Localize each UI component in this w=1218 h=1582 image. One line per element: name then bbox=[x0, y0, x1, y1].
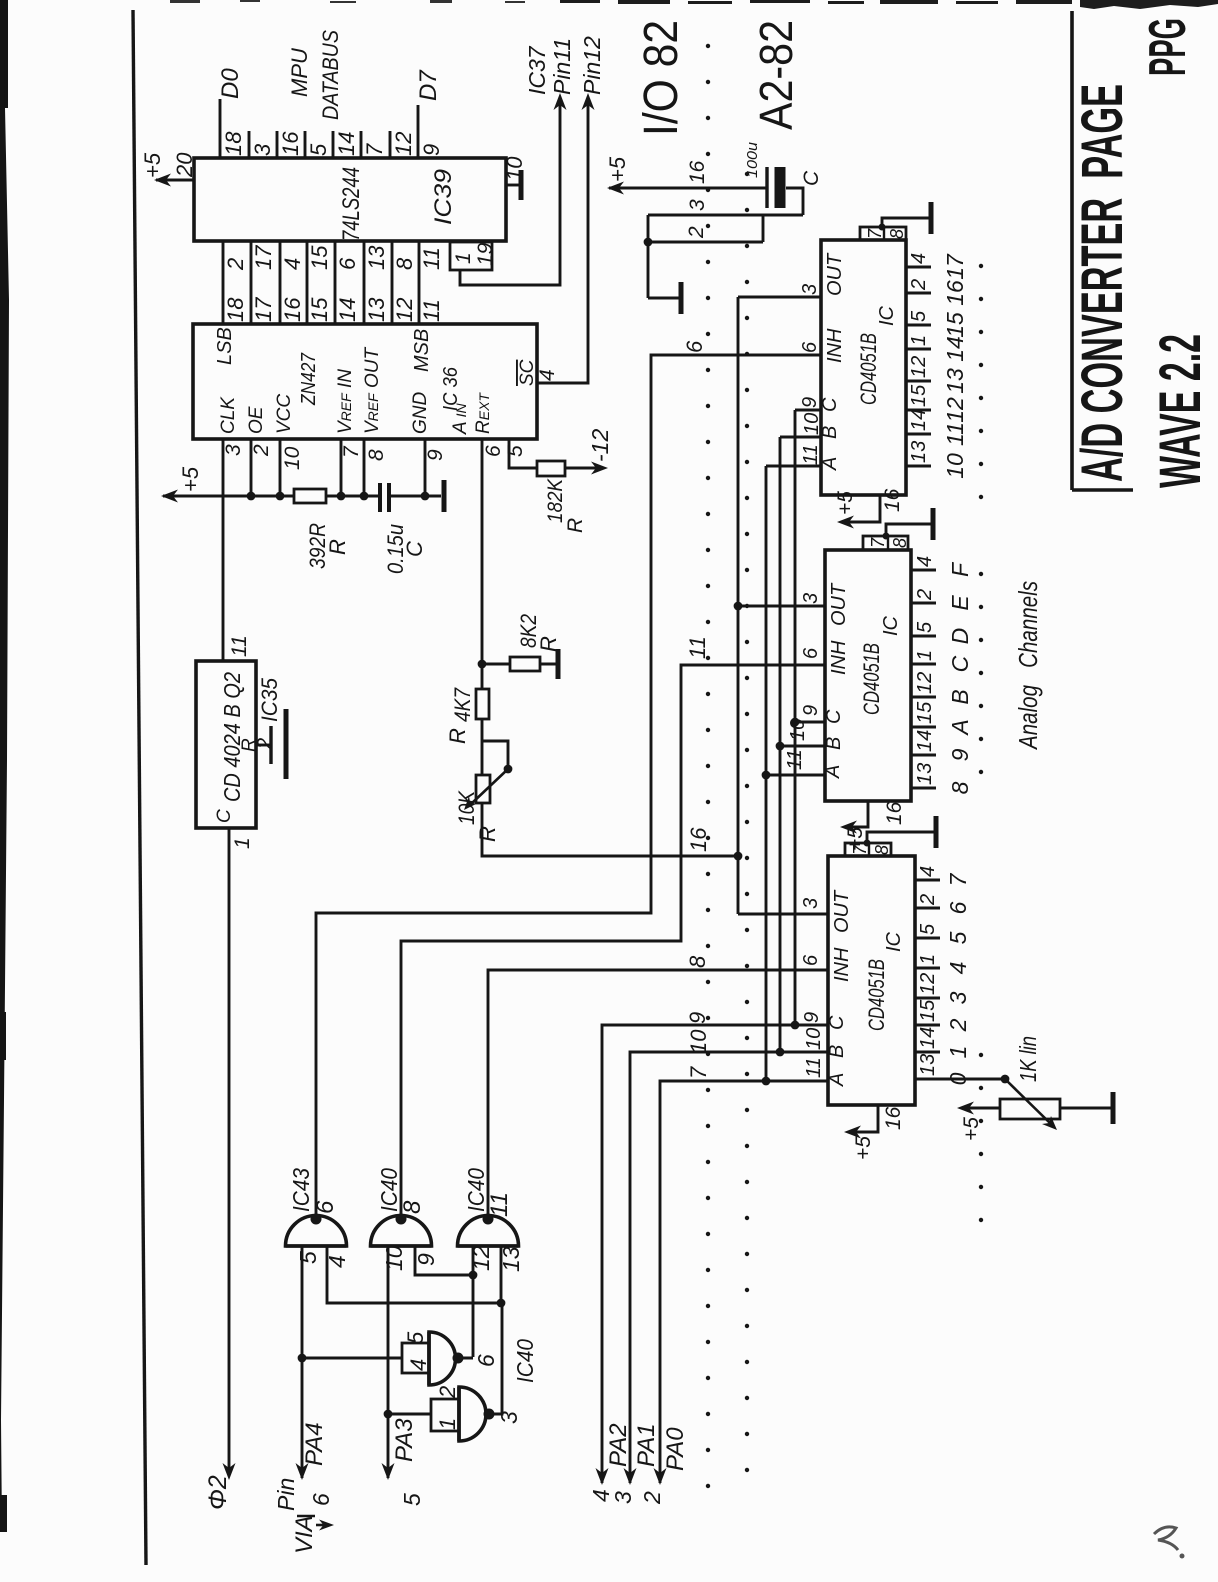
svg-text:R: R bbox=[564, 518, 587, 533]
svg-text:3: 3 bbox=[610, 1491, 636, 1504]
svg-text:A2-82: A2-82 bbox=[750, 20, 802, 130]
svg-text:B: B bbox=[823, 737, 845, 750]
svg-text:11: 11 bbox=[486, 1192, 513, 1217]
svg-text:8: 8 bbox=[399, 1200, 426, 1214]
wire IC40c inputs 4,5 from PA4 bbox=[302, 1357, 402, 1360]
svg-text:C: C bbox=[947, 655, 973, 672]
svg-text:+5: +5 bbox=[605, 156, 630, 182]
IC U-IC39 74LS244 buffer bbox=[194, 158, 506, 241]
svg-text:1: 1 bbox=[945, 1046, 971, 1059]
power +5 to 1K lin pot bbox=[961, 1107, 1000, 1110]
svg-text:5: 5 bbox=[504, 445, 527, 457]
wire IC39 data pin 14 to MPU databus bbox=[332, 131, 335, 158]
gate IC40b NAND (output pin 11) bbox=[458, 1216, 519, 1247]
wire ground net segment 3 bbox=[648, 214, 803, 217]
svg-text:9: 9 bbox=[799, 397, 821, 408]
svg-text:MPU: MPU bbox=[287, 48, 312, 97]
svg-text:PA0: PA0 bbox=[662, 1427, 689, 1471]
pin 15 channel A CD4051B no.2 bbox=[911, 726, 936, 729]
wire C input CD4051B no.2 pin 9 bbox=[795, 721, 825, 724]
svg-text:Pin: Pin bbox=[273, 1478, 299, 1511]
pin 15 channel 12 CD4051B no.1 bbox=[906, 409, 931, 412]
svg-text:A: A bbox=[819, 457, 841, 471]
svg-text:Analog Channels: Analog Channels bbox=[1013, 581, 1043, 751]
svg-text:2: 2 bbox=[908, 279, 930, 291]
svg-text:CD4051B: CD4051B bbox=[856, 333, 881, 405]
scan noise left edge bbox=[0, 0, 8, 108]
svg-text:5: 5 bbox=[914, 621, 936, 633]
svg-text:5: 5 bbox=[908, 310, 930, 322]
svg-text:16: 16 bbox=[883, 801, 906, 825]
wire ground net segment 2 bbox=[648, 241, 763, 244]
pin 14 channel 11 CD4051B no.1 bbox=[906, 433, 931, 436]
wire PA0 from VIA pin 2 to CD4051 A inputs bbox=[660, 1081, 828, 1483]
svg-text:1: 1 bbox=[917, 954, 939, 965]
svg-text:13: 13 bbox=[364, 245, 389, 270]
pins 7/8 box CD4051B no.1 bbox=[860, 227, 906, 240]
IC U-CD4051B no.2 analog multiplexer bbox=[825, 550, 911, 801]
svg-text:D: D bbox=[947, 628, 973, 645]
wire IC39 data pin 18 to MPU databus bbox=[219, 99, 222, 158]
svg-text:6: 6 bbox=[482, 445, 505, 457]
svg-text:CD 4024 B Q2: CD 4024 B Q2 bbox=[219, 672, 245, 802]
svg-text:IC39: IC39 bbox=[430, 169, 457, 225]
svg-text:18: 18 bbox=[223, 297, 248, 322]
wire IC36 pin 15 to IC39 pin 15 bbox=[306, 241, 309, 324]
svg-text:2: 2 bbox=[254, 738, 276, 750]
svg-text:5: 5 bbox=[295, 1251, 321, 1264]
pin 14 channel 9 CD4051B no.2 bbox=[911, 754, 936, 757]
svg-text:15: 15 bbox=[307, 245, 332, 270]
svg-text:3: 3 bbox=[686, 199, 709, 211]
svg-text:13: 13 bbox=[364, 297, 389, 322]
svg-text:15: 15 bbox=[307, 297, 332, 322]
svg-text:2: 2 bbox=[945, 1018, 971, 1032]
svg-text:VCC: VCC bbox=[274, 394, 295, 434]
IC U-IC35 CD4024B divider bbox=[196, 661, 256, 828]
svg-text:+5: +5 bbox=[852, 1136, 875, 1160]
svg-text:VREF IN: VREF IN bbox=[335, 369, 356, 434]
pin 4 channel F CD4051B no.2 bbox=[911, 569, 936, 572]
wire IC36 REXT pin 5 bbox=[509, 439, 537, 468]
ground pins 7/8 CD4051B no.2 bbox=[886, 524, 931, 536]
svg-text:15: 15 bbox=[914, 701, 936, 724]
wire B input CD4051B no.1 pin 10 bbox=[780, 436, 821, 439]
svg-text:14: 14 bbox=[908, 409, 930, 431]
svg-text:10: 10 bbox=[686, 1029, 711, 1054]
svg-text:2: 2 bbox=[917, 894, 939, 906]
pin 13 channel 0 CD4051B no.3 bbox=[915, 1078, 940, 1081]
svg-text:INH: INH bbox=[824, 328, 846, 363]
pin 1 channel 4 CD4051B no.3 bbox=[915, 967, 940, 970]
wire AIN node to IC36 pin 6 bbox=[481, 439, 484, 664]
svg-text:1: 1 bbox=[435, 1418, 460, 1430]
svg-text:11: 11 bbox=[800, 444, 822, 465]
wire IC40d output 3 to pins 4/13 net bbox=[486, 1303, 502, 1414]
svg-text:Φ2: Φ2 bbox=[204, 1475, 232, 1510]
svg-text:R: R bbox=[536, 636, 561, 652]
svg-text:5: 5 bbox=[917, 923, 939, 935]
ground pin 10 of IC39 bbox=[506, 184, 520, 187]
potentiometer R-1K-lin bbox=[1000, 1099, 1060, 1119]
svg-text:R: R bbox=[475, 826, 500, 842]
pin 4 channel 17 CD4051B no.1 bbox=[906, 266, 931, 269]
svg-text:2: 2 bbox=[435, 1386, 460, 1399]
wire IC39 data pin 9 to MPU databus bbox=[417, 105, 420, 158]
svg-text:PA1: PA1 bbox=[633, 1423, 660, 1467]
IC U-CD4051B no.1 analog multiplexer bbox=[821, 240, 906, 495]
wire IC36 pin 13 to IC39 pin 13 bbox=[363, 241, 366, 324]
svg-text:9: 9 bbox=[413, 1253, 439, 1266]
svg-text:16: 16 bbox=[280, 297, 305, 322]
wire IC39 data pin 5 to MPU databus bbox=[304, 131, 307, 158]
svg-text:13: 13 bbox=[908, 441, 930, 463]
svg-text:+5: +5 bbox=[178, 466, 203, 492]
svg-text:3: 3 bbox=[800, 593, 822, 604]
svg-text:6: 6 bbox=[335, 257, 360, 270]
wire jog from pot wiper bbox=[482, 741, 508, 769]
dotted channel continuation marks bbox=[979, 266, 983, 1220]
ground pins 7/8 CD4051B no.1 bbox=[882, 218, 929, 227]
pin 13 channel 10 CD4051B no.1 bbox=[906, 465, 931, 468]
svg-text:2: 2 bbox=[250, 444, 273, 457]
wire IC36 pin 18 to IC39 pin 2 bbox=[222, 241, 225, 324]
pin 5 channel 5 CD4051B no.3 bbox=[915, 937, 940, 940]
svg-text:4: 4 bbox=[406, 1359, 431, 1371]
border frame line bbox=[133, 10, 146, 1565]
dotted separator line 1 bbox=[706, 46, 710, 1486]
svg-text:VREF OUT: VREF OUT bbox=[362, 347, 383, 434]
svg-text:D0: D0 bbox=[217, 68, 244, 99]
svg-text:12: 12 bbox=[392, 298, 417, 322]
svg-text:D7: D7 bbox=[415, 69, 442, 101]
svg-text:IC: IC bbox=[880, 615, 902, 636]
svg-text:6: 6 bbox=[799, 341, 821, 353]
svg-text:11: 11 bbox=[419, 247, 444, 270]
svg-text:WAVE 2.2: WAVE 2.2 bbox=[1148, 334, 1213, 488]
svg-text:16: 16 bbox=[881, 488, 904, 512]
svg-text:13: 13 bbox=[942, 368, 968, 394]
svg-text:A: A bbox=[947, 719, 973, 736]
svg-text:GND: GND bbox=[410, 392, 431, 435]
svg-text:VIA: VIA bbox=[291, 1515, 318, 1554]
svg-text:9: 9 bbox=[947, 748, 973, 761]
svg-text:7: 7 bbox=[340, 445, 363, 458]
svg-text:C: C bbox=[402, 541, 427, 557]
svg-text:13: 13 bbox=[914, 763, 936, 785]
capacitor C-100u electrolytic bbox=[765, 167, 768, 208]
pins 7/8 box CD4051B no.2 bbox=[863, 536, 908, 550]
svg-text:SC: SC bbox=[517, 359, 538, 386]
svg-text:10: 10 bbox=[381, 1245, 407, 1271]
wire PA4 from VIA pin 6 to IC43 input 5 bbox=[301, 1246, 304, 1478]
svg-text:E: E bbox=[947, 595, 973, 611]
svg-text:6: 6 bbox=[800, 954, 822, 966]
svg-text:8: 8 bbox=[872, 845, 892, 855]
svg-text:14: 14 bbox=[335, 298, 360, 322]
wire channel 0 to 1K lin pot wiper bbox=[915, 1078, 1005, 1081]
svg-text:8: 8 bbox=[365, 449, 388, 461]
wire IC35 pin 1 clock from Phi2 bbox=[228, 828, 231, 1474]
gate IC40d NAND inverter (pins 1,2,3) bbox=[431, 1399, 459, 1431]
svg-text:IC40: IC40 bbox=[512, 1339, 538, 1383]
pin 15 channel 2 CD4051B no.3 bbox=[915, 1024, 940, 1027]
svg-text:1: 1 bbox=[452, 252, 475, 264]
wire IC40b pin 13 input bbox=[500, 1246, 503, 1303]
svg-text:IC: IC bbox=[876, 305, 898, 326]
dotted separator line 2 bbox=[745, 174, 749, 1470]
svg-text:PA4: PA4 bbox=[301, 1422, 328, 1466]
svg-text:17: 17 bbox=[251, 297, 276, 322]
resistor R-182K bbox=[537, 461, 565, 476]
svg-text:15: 15 bbox=[942, 312, 968, 338]
wire bus B to all CD4051B pin 10 bbox=[779, 437, 782, 1052]
svg-text:C: C bbox=[823, 709, 845, 724]
svg-text:4: 4 bbox=[945, 962, 971, 975]
pin 2 channel E CD4051B no.2 bbox=[911, 602, 936, 605]
svg-text:13: 13 bbox=[917, 1054, 939, 1076]
svg-text:16: 16 bbox=[882, 1106, 905, 1130]
pin 14 channel 1 CD4051B no.3 bbox=[915, 1051, 940, 1054]
svg-text:11: 11 bbox=[784, 749, 806, 770]
svg-text:C: C bbox=[800, 170, 823, 186]
svg-text:11: 11 bbox=[419, 299, 444, 322]
wire IC40b pin 12 input to gate IC40c output 6 bbox=[472, 1246, 475, 1357]
pin 5 channel 15 CD4051B no.1 bbox=[906, 324, 931, 327]
wire PA3 from VIA pin 5 to IC40 input 10 bbox=[387, 1246, 390, 1478]
svg-text:8: 8 bbox=[947, 781, 973, 794]
svg-text:17: 17 bbox=[251, 245, 276, 270]
svg-text:A: A bbox=[826, 1073, 848, 1087]
pins 7/8 box CD4051B no.3 bbox=[845, 843, 891, 856]
svg-text:OE: OE bbox=[246, 406, 267, 434]
wire IC36 pin 2 OE to +5 rail bbox=[250, 439, 253, 496]
scan noise top edge bbox=[560, 0, 1072, 4]
gate IC40a NAND (output pin 8) bbox=[371, 1216, 432, 1247]
svg-text:4K7: 4K7 bbox=[450, 687, 475, 722]
wire PA2 from VIA pin 4 to CD4051 C inputs bbox=[602, 1025, 828, 1483]
ground of 1K lin pot bbox=[1060, 1107, 1111, 1110]
svg-text:A/D CONVERTER PAGE: A/D CONVERTER PAGE bbox=[1070, 84, 1135, 482]
svg-text:1K lin: 1K lin bbox=[1015, 1036, 1041, 1082]
svg-text:15: 15 bbox=[908, 384, 930, 407]
svg-text:R: R bbox=[325, 539, 350, 555]
pin 1 channel 14 CD4051B no.1 bbox=[906, 348, 931, 351]
svg-text:INH: INH bbox=[831, 947, 853, 982]
svg-text:5: 5 bbox=[945, 931, 971, 944]
svg-text:3: 3 bbox=[222, 444, 245, 456]
svg-text:4: 4 bbox=[280, 258, 305, 270]
svg-text:14: 14 bbox=[917, 1027, 939, 1049]
wire C input CD4051B no.1 pin 9 bbox=[795, 409, 821, 412]
svg-text:15: 15 bbox=[917, 999, 939, 1022]
pin 2 channel 6 CD4051B no.3 bbox=[915, 907, 940, 910]
svg-text:C: C bbox=[826, 1015, 848, 1030]
wire IC40c output 6 to pin 12 net bbox=[455, 1357, 473, 1360]
wire IC36 pin 14 to IC39 pin 6 bbox=[334, 241, 337, 324]
svg-text:CLK: CLK bbox=[218, 396, 239, 434]
wire IC39 data pin 16 to MPU databus bbox=[276, 131, 279, 158]
wire ground net top connector bbox=[647, 215, 650, 298]
wire IC36 pin 12 to IC39 pin 8 bbox=[391, 241, 394, 324]
svg-text:Pin11: Pin11 bbox=[549, 38, 575, 95]
pins 1/19 box of IC39 (output enables) bbox=[450, 242, 492, 270]
wire IC37 Pin11 to IC39 pins 1/19 bbox=[460, 100, 560, 285]
svg-text:2: 2 bbox=[685, 226, 708, 239]
svg-text:6: 6 bbox=[945, 901, 971, 914]
svg-text:1: 1 bbox=[908, 335, 930, 346]
power +5 pin 16 CD4051B no.1 bbox=[841, 495, 880, 522]
svg-text:4: 4 bbox=[917, 866, 939, 877]
svg-text:2: 2 bbox=[223, 258, 248, 271]
svg-text:11: 11 bbox=[803, 1057, 825, 1078]
wire IC35 pin 11 to IC36 CLK pin 3 bbox=[222, 439, 225, 661]
svg-text:9: 9 bbox=[424, 449, 447, 461]
svg-text:MSB: MSB bbox=[411, 329, 433, 372]
wire OUT stub CD4051B no.2 pin 3 bbox=[738, 605, 825, 608]
svg-text:1: 1 bbox=[914, 650, 936, 661]
svg-text:4: 4 bbox=[914, 556, 936, 567]
svg-text:A IN: A IN bbox=[450, 403, 471, 435]
svg-text:IC43: IC43 bbox=[288, 1168, 314, 1212]
svg-text:+5: +5 bbox=[140, 152, 165, 178]
svg-text:7: 7 bbox=[686, 1066, 711, 1079]
power +5 pin 16 CD4051B no.2 bbox=[844, 801, 868, 827]
svg-text:4: 4 bbox=[536, 369, 559, 381]
svg-text:IC37: IC37 bbox=[524, 45, 550, 95]
svg-text:F: F bbox=[947, 561, 973, 577]
wire IC37 Pin12 to IC36 SC pin 4 bbox=[537, 100, 588, 383]
svg-text:4: 4 bbox=[908, 253, 930, 264]
svg-text:7: 7 bbox=[945, 872, 971, 886]
svg-text:2: 2 bbox=[639, 1491, 665, 1505]
pin 2 channel 16 CD4051B no.1 bbox=[906, 292, 931, 295]
svg-text:CD4051B: CD4051B bbox=[859, 643, 884, 715]
power +5 pin 16 CD4051B no.3 bbox=[848, 1105, 878, 1132]
svg-text:B: B bbox=[826, 1045, 848, 1058]
wire IC40a pin 9 input bbox=[415, 1246, 473, 1275]
svg-text:3: 3 bbox=[800, 898, 822, 909]
wire IC36 pin 10 VCC to +5 rail bbox=[279, 439, 282, 496]
resistor R-8K2 to ground bbox=[482, 663, 510, 666]
svg-text:182K: 182K bbox=[544, 478, 567, 523]
wire PA1 from VIA pin 3 to CD4051 B inputs bbox=[630, 1052, 828, 1483]
svg-text:5: 5 bbox=[399, 1493, 425, 1506]
svg-text:+5: +5 bbox=[834, 491, 857, 515]
svg-text:3: 3 bbox=[945, 991, 971, 1004]
svg-text:12: 12 bbox=[908, 356, 930, 378]
svg-text:74LS244: 74LS244 bbox=[338, 167, 365, 241]
wire IC43 pin 4 input bbox=[327, 1246, 502, 1303]
svg-text:14: 14 bbox=[334, 132, 359, 156]
wire IC39 data pin 3 to MPU databus bbox=[248, 131, 251, 158]
svg-text:9: 9 bbox=[419, 144, 444, 156]
svg-text:PA2: PA2 bbox=[605, 1423, 632, 1467]
pin 1 channel C CD4051B no.2 bbox=[911, 663, 936, 666]
svg-text:10: 10 bbox=[803, 1028, 825, 1050]
svg-text:16: 16 bbox=[686, 160, 709, 184]
wire INH3 from IC40b output to CD4051B no.3 pin 6 bbox=[488, 970, 828, 1216]
resistor R-4K7 series bbox=[481, 719, 484, 741]
wire A input CD4051B no.2 pin 11 bbox=[766, 774, 825, 777]
wire OUT stub CD4051B no.3 pin 3 bbox=[738, 913, 828, 916]
svg-text:10: 10 bbox=[801, 413, 823, 435]
wire INH2 from IC40a output to CD4051B no.2 pin 6 bbox=[401, 665, 825, 1216]
svg-text:C: C bbox=[214, 809, 235, 823]
svg-text:OUT: OUT bbox=[831, 889, 853, 933]
ground of bulk capacitor net bbox=[648, 297, 679, 300]
pin 12 channel 3 CD4051B no.3 bbox=[915, 997, 940, 1000]
wire INH1 from IC43 output to CD4051B no.1 pin 6 bbox=[316, 355, 821, 1216]
pin 12 channel 13 CD4051B no.1 bbox=[906, 380, 931, 383]
svg-text:20: 20 bbox=[172, 152, 197, 178]
svg-text:6: 6 bbox=[308, 1493, 334, 1506]
svg-text:OUT: OUT bbox=[828, 582, 850, 626]
svg-text:8: 8 bbox=[685, 955, 710, 968]
wire IC36 pin 16 to IC39 pin 4 bbox=[279, 241, 282, 324]
ground pins 7/8 CD4051B no.3 bbox=[867, 832, 934, 843]
svg-text:14: 14 bbox=[942, 336, 968, 362]
wire bus C to all CD4051B pin 9 bbox=[794, 410, 797, 1025]
svg-text:-12: -12 bbox=[587, 429, 613, 462]
svg-text:3: 3 bbox=[250, 143, 275, 156]
svg-text:9: 9 bbox=[801, 1012, 823, 1023]
pin 5 channel D CD4051B no.2 bbox=[911, 635, 936, 638]
svg-text:IC: IC bbox=[883, 931, 905, 952]
wire IC39 data pin 12 to MPU databus bbox=[389, 131, 392, 158]
svg-text:6: 6 bbox=[473, 1354, 499, 1367]
svg-text:12: 12 bbox=[917, 973, 939, 995]
svg-text:14: 14 bbox=[914, 730, 936, 752]
svg-text:5: 5 bbox=[306, 143, 331, 156]
svg-text:10: 10 bbox=[502, 156, 527, 181]
svg-text:IC35: IC35 bbox=[257, 677, 282, 722]
svg-text:C: C bbox=[819, 397, 841, 412]
svg-text:16: 16 bbox=[278, 131, 303, 156]
svg-text:16: 16 bbox=[942, 280, 968, 306]
resistor R-392R bbox=[294, 489, 326, 503]
svg-text:LSB: LSB bbox=[214, 327, 236, 365]
svg-text:6: 6 bbox=[682, 340, 707, 353]
title block outline bbox=[1070, 11, 1074, 490]
pin 12 channel B CD4051B no.2 bbox=[911, 696, 936, 699]
svg-text:8: 8 bbox=[392, 257, 417, 270]
VIA arrow marker bbox=[319, 1520, 334, 1531]
svg-text:ZN427: ZN427 bbox=[298, 352, 320, 406]
svg-text:A: A bbox=[822, 765, 844, 779]
svg-text:DATABUS: DATABUS bbox=[318, 30, 343, 120]
pin 13 channel 8 CD4051B no.2 bbox=[911, 787, 936, 790]
svg-text:12: 12 bbox=[942, 397, 968, 423]
svg-text:PPG: PPG bbox=[1139, 18, 1197, 76]
svg-text:9: 9 bbox=[800, 705, 822, 716]
svg-text:10K: 10K bbox=[454, 790, 479, 825]
gate IC40c NAND inverter (pins 4,5,6) bbox=[402, 1343, 429, 1373]
wire A input CD4051B no.1 pin 11 bbox=[766, 465, 821, 468]
svg-text:7: 7 bbox=[362, 143, 387, 156]
wire OUT stub CD4051B no.1 pin 3 bbox=[738, 296, 821, 299]
svg-text:11: 11 bbox=[228, 635, 251, 657]
power +5 rail for ZN427 reference bbox=[163, 495, 294, 498]
wire IC36 pin 11 to IC39 pin 11 bbox=[418, 241, 421, 324]
svg-text:2: 2 bbox=[914, 589, 936, 601]
wire IC36 pin 9 GND to rail bbox=[424, 439, 427, 496]
IC U-IC36 ZN427 ADC bbox=[193, 324, 537, 439]
svg-text:CD4051B: CD4051B bbox=[864, 959, 889, 1031]
wire IC36 pin 17 to IC39 pin 17 bbox=[250, 241, 253, 324]
power +5 rail with bulk capacitor bbox=[609, 187, 767, 190]
svg-text:INH: INH bbox=[828, 640, 850, 675]
